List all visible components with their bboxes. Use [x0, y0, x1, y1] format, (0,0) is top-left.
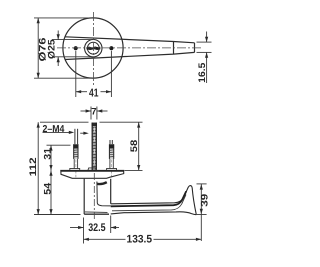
rose circle O76	[63, 18, 123, 78]
screw hole right	[109, 46, 113, 50]
centerline vertical (top view)	[92, 12, 94, 87]
lever arm (front view)	[111, 186, 197, 215]
dim O25	[52, 31, 92, 67]
spindle bush circle	[87, 42, 99, 54]
svg-text:112: 112	[28, 157, 39, 176]
dim 39	[197, 184, 207, 241]
spindle hole (dark slot)	[86, 47, 100, 51]
dim O76	[34, 18, 92, 78]
dim 54	[50, 170, 52, 214]
svg-text:32.5: 32.5	[88, 222, 105, 234]
svg-text:16.5: 16.5	[197, 62, 208, 83]
dim 32.5	[70, 216, 119, 244]
dim 58	[100, 122, 143, 170]
svg-text:39: 39	[199, 194, 210, 207]
svg-text:54: 54	[42, 182, 53, 195]
svg-text:31: 31	[42, 147, 53, 160]
centerline neck (front view)	[93, 173, 95, 220]
spindle hub on plate	[88, 168, 96, 170]
rose plate	[61, 170, 124, 178]
svg-text:58: 58	[129, 140, 140, 153]
rose inner circle O25	[85, 40, 102, 57]
screw left	[70, 129, 80, 178]
dim 112	[34, 122, 89, 214]
svg-text:133.5: 133.5	[127, 233, 153, 245]
svg-text:7: 7	[91, 107, 96, 118]
spindle	[92, 123, 97, 171]
lever (top view)	[65, 37, 194, 60]
svg-text:41: 41	[89, 87, 99, 99]
dim 16.5	[197, 32, 212, 84]
centerline horizontal (top view)	[57, 47, 203, 49]
dim 31	[47, 145, 71, 170]
svg-text:2–M4: 2–M4	[43, 124, 65, 135]
lever neck (front view)	[84, 179, 111, 215]
dim 133.5	[84, 238, 202, 240]
screw right	[107, 140, 117, 178]
dim 41	[76, 51, 112, 97]
screw hole left	[74, 46, 78, 50]
dim 7	[81, 107, 108, 120]
svg-text:Ø25: Ø25	[47, 39, 58, 59]
